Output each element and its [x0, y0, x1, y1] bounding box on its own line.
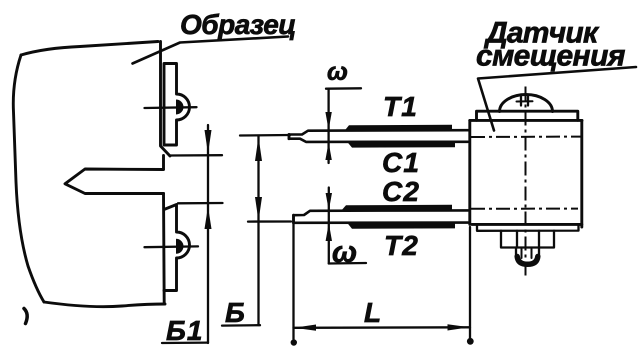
svg-text:С1: С1 — [382, 147, 420, 178]
svg-text:Образец: Образец — [180, 9, 296, 40]
svg-text:С2: С2 — [382, 176, 420, 207]
svg-text:ω: ω — [327, 58, 348, 86]
svg-text:Т1: Т1 — [383, 91, 418, 122]
svg-text:Т2: Т2 — [384, 230, 419, 261]
svg-text:Б: Б — [225, 297, 245, 328]
svg-text:L: L — [364, 297, 381, 328]
svg-text:смещения: смещения — [476, 40, 626, 73]
svg-text:ω: ω — [332, 236, 357, 269]
svg-text:Б1: Б1 — [166, 315, 203, 346]
